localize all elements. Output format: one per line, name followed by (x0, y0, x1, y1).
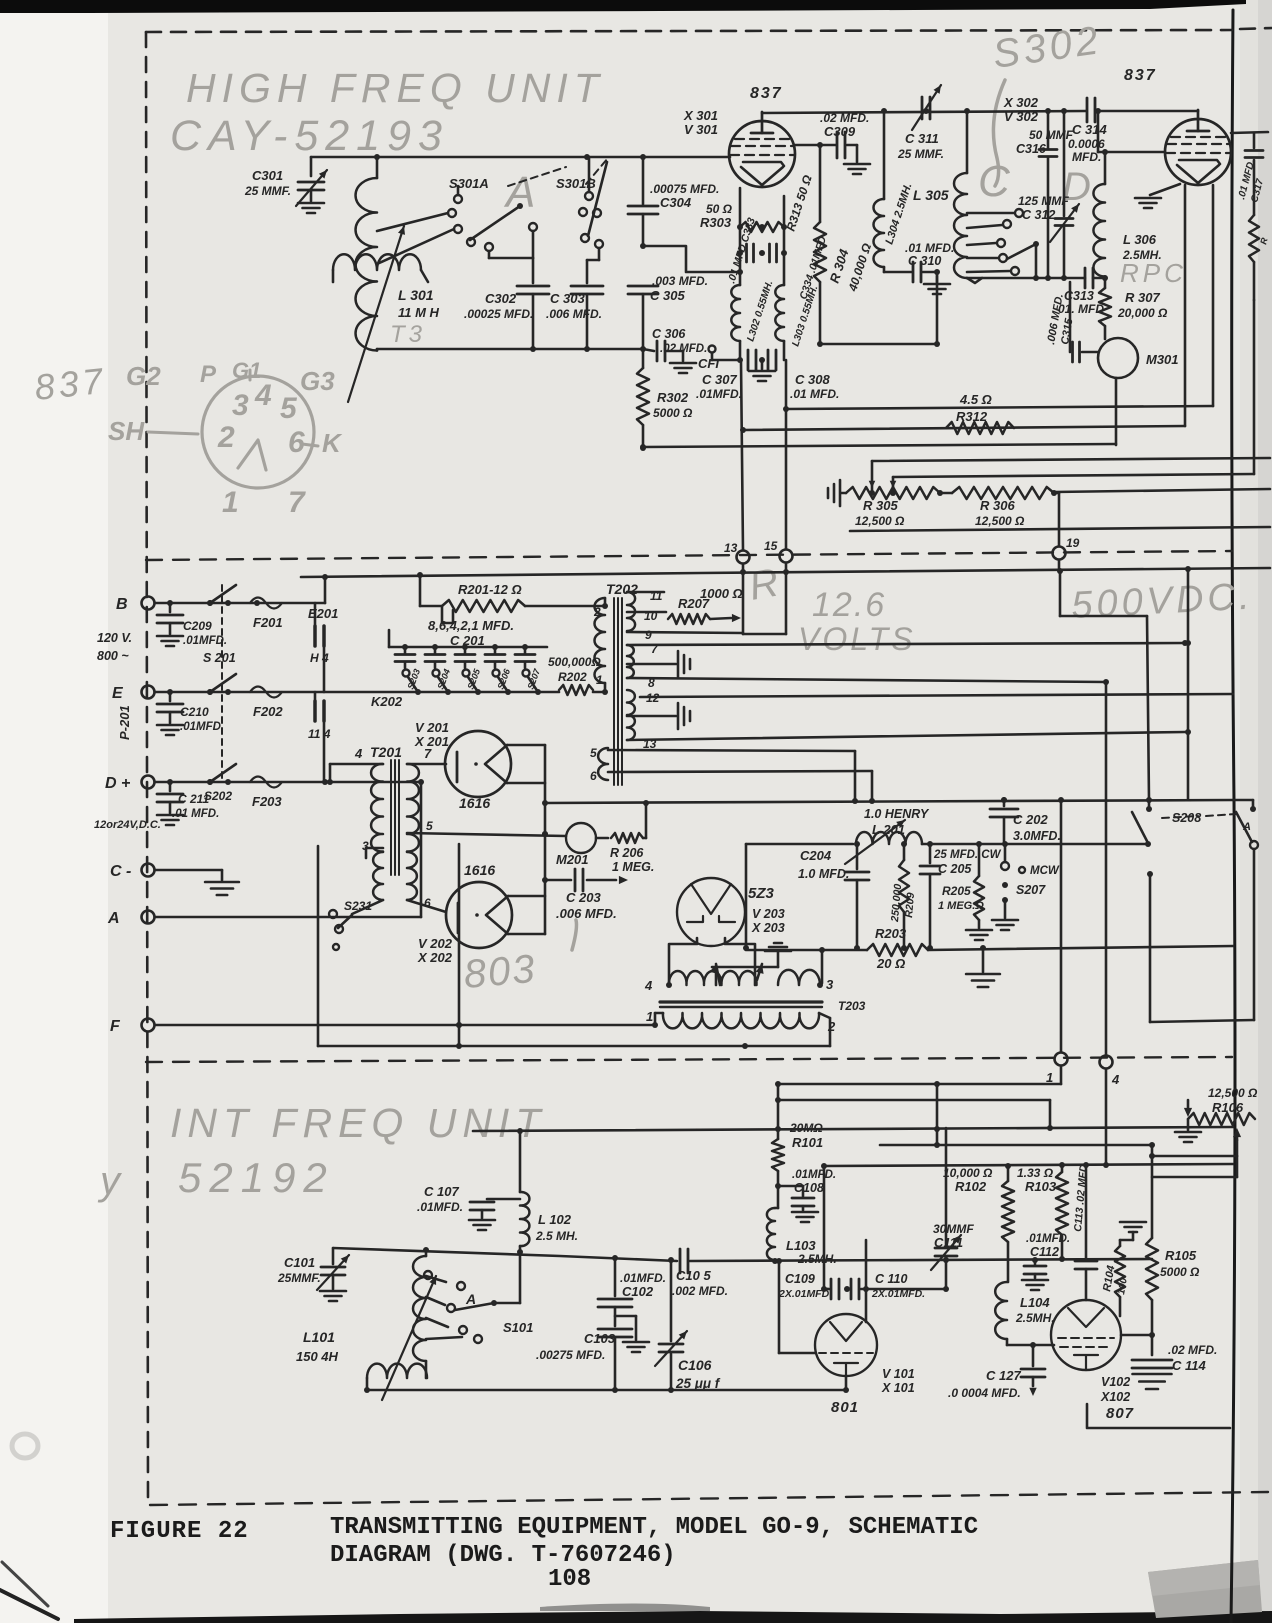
bottom-left scan mark (0, 1562, 58, 1619)
svg-text:P: P (200, 361, 217, 388)
svg-text:.01MFD.: .01MFD. (696, 387, 742, 401)
svg-text:P-201: P-201 (117, 705, 132, 740)
svg-text:K202: K202 (371, 694, 403, 709)
frame left dashed (146, 32, 148, 1503)
svg-text:X 101: X 101 (881, 1381, 915, 1395)
svg-text:6: 6 (590, 769, 597, 783)
svg-text:1616: 1616 (459, 795, 490, 811)
svg-text:D +: D + (105, 775, 130, 792)
svg-text:B: B (116, 596, 128, 613)
svg-text:L 102: L 102 (538, 1212, 572, 1227)
svg-text:R303: R303 (700, 215, 732, 230)
wire if bus y1084 (775, 1081, 1061, 1087)
svg-text:S101: S101 (503, 1320, 533, 1335)
svg-text:G2: G2 (126, 361, 161, 391)
resistor R201 (420, 575, 603, 623)
inductor L306 (1093, 149, 1161, 288)
svg-text:50 MMF: 50 MMF (1029, 128, 1074, 142)
svg-text:TRANSMITTING EQUIPMENT, MODEL: TRANSMITTING EQUIPMENT, MODEL GO-9, SCHE… (330, 1514, 978, 1541)
svg-text:5Z3: 5Z3 (748, 885, 775, 902)
svg-text:01. MFD: 01. MFD (1058, 302, 1104, 316)
svg-text:1 MEG.: 1 MEG. (612, 860, 654, 874)
svg-text:.01 MFD.: .01 MFD. (905, 241, 954, 255)
wire S101 taps (426, 1276, 462, 1339)
svg-text:C103: C103 (584, 1331, 616, 1346)
svg-text:V102: V102 (1101, 1375, 1130, 1389)
wire if top bus (473, 1125, 1233, 1134)
wire tap7 bus (627, 640, 1188, 646)
pencil tube base diagram (108, 358, 343, 519)
svg-text:C112: C112 (1030, 1245, 1059, 1259)
wire mid lower bus (318, 846, 830, 1049)
svg-text:108: 108 (548, 1566, 591, 1593)
svg-text:12,500 Ω: 12,500 Ω (1208, 1086, 1258, 1100)
svg-text:C111: C111 (934, 1235, 963, 1250)
svg-text:L103: L103 (786, 1238, 816, 1253)
wire hf bus446 (640, 444, 1116, 450)
capacitor C127 (948, 1342, 1045, 1400)
terminal 15 (743, 360, 793, 634)
terminal A (107, 910, 155, 927)
svg-text:20MΩ: 20MΩ (789, 1121, 823, 1135)
resistor R302 (637, 349, 693, 451)
fuse F203 (250, 777, 282, 810)
svg-text:4.5 Ω: 4.5 Ω (959, 392, 992, 407)
fuse F201 (250, 598, 283, 631)
svg-text:5: 5 (280, 392, 298, 425)
ground C102-C103 (615, 1316, 649, 1352)
wire M301 down (1115, 378, 1118, 445)
inductor L301 (356, 157, 440, 351)
svg-text:4: 4 (254, 379, 272, 412)
svg-text:C 114: C 114 (1172, 1358, 1206, 1373)
capacitor C311 variable (897, 85, 944, 161)
capacitor C102 (598, 1258, 666, 1326)
terminal CFI (698, 346, 740, 372)
capacitor C113 (1072, 1161, 1097, 1300)
wires L305 taps (967, 213, 1014, 272)
svg-text:1 MEG.Ω: 1 MEG.Ω (938, 900, 984, 912)
svg-text:.02 MFD.: .02 MFD. (660, 343, 707, 355)
transformer T202 primary (593, 598, 608, 695)
switch S303 blade (1007, 241, 1039, 281)
variometer arrow L301 (348, 226, 405, 402)
frame bottom dashed (150, 1492, 1268, 1505)
capacitor C303 (546, 286, 603, 349)
ground V302 (1135, 184, 1180, 208)
svg-text:C 201: C 201 (450, 633, 485, 648)
transformer T201 right low (407, 852, 446, 912)
wire E line (155, 689, 603, 695)
svg-text:C 311: C 311 (905, 131, 939, 146)
svg-text:DIAGRAM (DWG. T-7607246): DIAGRAM (DWG. T-7607246) (330, 1542, 676, 1569)
wire if bus y1100 (775, 1097, 1050, 1128)
svg-text:C 202: C 202 (1013, 812, 1048, 827)
resistor R209 (889, 844, 917, 951)
svg-text:X 201: X 201 (414, 734, 449, 749)
svg-text:8,6,4,2,1 MFD.: 8,6,4,2,1 MFD. (428, 618, 514, 633)
svg-text:MFD.: MFD. (1072, 150, 1101, 164)
svg-text:4: 4 (1111, 1072, 1120, 1087)
svg-text:.01 MFD.: .01 MFD. (790, 387, 839, 401)
svg-text:R102: R102 (955, 1179, 987, 1194)
wire C line (155, 870, 239, 895)
top scan bar (0, 0, 1246, 13)
wire top bus hf (311, 154, 730, 160)
relay E201 (308, 603, 338, 692)
resistor R306 (937, 487, 1270, 528)
wire v301 cathode legs (740, 188, 784, 227)
terminal C (110, 863, 155, 880)
svg-text:A: A (107, 910, 120, 927)
svg-text:50 Ω: 50 Ω (706, 202, 733, 216)
svg-text:V 301: V 301 (684, 122, 718, 137)
svg-text:VOLTS: VOLTS (798, 621, 916, 657)
svg-text:837: 837 (1124, 67, 1157, 84)
resistor R103 (1017, 1165, 1068, 1262)
svg-text:5: 5 (426, 819, 433, 833)
wire v302 leg short (783, 185, 1213, 412)
transformer T202 sec3 (627, 690, 660, 751)
svg-text:C 110: C 110 (875, 1272, 907, 1286)
resistor R305 (846, 487, 940, 528)
pencil C (978, 157, 1014, 206)
wire v301 top cap bus (762, 108, 1198, 114)
capacitor C301 (244, 157, 327, 213)
capacitor C114 (1132, 1343, 1217, 1389)
ground T202 sec3 tap (627, 703, 690, 729)
capacitor C310 (884, 241, 954, 344)
svg-text:C 203: C 203 (566, 890, 601, 905)
svg-text:S207: S207 (1016, 883, 1046, 897)
pencil CAY-52193 (170, 112, 449, 160)
svg-text:FIGURE 22: FIGURE 22 (110, 1518, 249, 1545)
fuse F202 (250, 687, 283, 720)
capacitor C305 (628, 274, 708, 349)
svg-text:.01MFD.: .01MFD. (792, 1169, 836, 1181)
svg-text:V 203: V 203 (752, 907, 785, 921)
switch S201b (207, 674, 236, 695)
pencil 12.6 VOLTS (798, 586, 916, 657)
svg-text:12,500 Ω: 12,500 Ω (855, 514, 905, 528)
svg-text:A: A (465, 1291, 476, 1307)
resistor R105 (1146, 1145, 1200, 1355)
capacitor C108 (778, 1169, 836, 1222)
svg-text:C -: C - (110, 863, 131, 880)
svg-text:L 201: L 201 (872, 822, 905, 837)
svg-text:C 205: C 205 (938, 862, 972, 876)
separator dashed power/if (146, 1057, 1232, 1062)
svg-text:.02 MFD.: .02 MFD. (820, 111, 869, 125)
svg-text:2.5MH.: 2.5MH. (1122, 248, 1162, 262)
switch S208 (1132, 800, 1236, 847)
resistor R202 (548, 655, 601, 695)
wire tap5 (608, 750, 858, 804)
frame top dashed (146, 28, 1272, 32)
bottom scan bar (74, 1604, 1272, 1623)
wire D line (155, 779, 421, 785)
tube V301 837 (683, 85, 795, 187)
capacitor C201 bank (389, 618, 547, 695)
wire 5z3 filament tap (710, 964, 764, 985)
inductor L305 (913, 111, 982, 283)
svg-text:2: 2 (593, 605, 601, 619)
svg-text:INT FREQ UNIT: INT FREQ UNIT (170, 1100, 546, 1146)
ground R305 (828, 480, 846, 506)
svg-text:K: K (322, 428, 343, 458)
resistor R106 (1175, 1086, 1258, 1142)
svg-text:R 206: R 206 (610, 846, 644, 860)
svg-text:25MMF.: 25MMF. (277, 1271, 321, 1285)
capacitor C111 (931, 1128, 974, 1289)
wire B to bus (324, 577, 327, 603)
wire L301 tap1 (377, 213, 448, 231)
inductor L103 (767, 1208, 837, 1266)
tube V203 5Z3 (677, 878, 785, 946)
transformer T202 sec1 (627, 589, 743, 642)
svg-text:V 101: V 101 (882, 1367, 915, 1381)
box 807 output (1087, 1404, 1230, 1428)
svg-text:C 305: C 305 (650, 288, 685, 303)
wire vert 1188 (1185, 566, 1191, 800)
resistor R304 (814, 145, 874, 344)
svg-text:.00075 MFD.: .00075 MFD. (650, 182, 719, 196)
svg-text:9: 9 (645, 628, 652, 642)
capacitor C107 (417, 1131, 520, 1230)
svg-text:C 314: C 314 (1072, 122, 1107, 137)
inductor L201 (743, 807, 930, 951)
capacitor C308 (749, 350, 839, 401)
pencil 837 left (33, 360, 109, 408)
caption title line1 (330, 1514, 978, 1541)
svg-text:5000 Ω: 5000 Ω (653, 406, 693, 420)
svg-text:X102: X102 (1100, 1390, 1130, 1404)
wire B line (155, 600, 325, 606)
inductor L101 (296, 1250, 426, 1378)
capacitor C316 (1016, 111, 1074, 278)
meter M301 (1098, 338, 1179, 378)
pencil 803 (462, 947, 538, 997)
svg-text:C209: C209 (183, 619, 212, 633)
svg-text:7: 7 (424, 746, 432, 761)
capacitor C202 (990, 797, 1061, 844)
ground 5Z3 filament ct (712, 943, 791, 985)
svg-text:1: 1 (596, 673, 603, 687)
transformer T203 top winding (644, 970, 834, 993)
tube V202 1616 (417, 862, 512, 965)
transformer T203 bottom winding (646, 1009, 836, 1034)
svg-text:E: E (112, 685, 124, 702)
capacitor C309 (820, 111, 870, 174)
svg-text:.01MFD.: .01MFD. (1026, 1233, 1070, 1245)
svg-text:HIGH FREQ UNIT: HIGH FREQ UNIT (186, 65, 605, 111)
svg-text:X 301: X 301 (683, 108, 718, 123)
switch S207 mcw (992, 844, 1060, 930)
svg-text:C204: C204 (800, 848, 832, 863)
svg-text:52192: 52192 (178, 1154, 335, 1201)
svg-text:R209: R209 (903, 892, 917, 918)
svg-text:V 302: V 302 (1004, 109, 1039, 124)
svg-text:19: 19 (1066, 536, 1080, 550)
svg-text:L 305: L 305 (913, 187, 949, 203)
dashed link A S301A (508, 167, 566, 186)
svg-text:C301: C301 (252, 168, 283, 183)
capacitor C211 (157, 782, 219, 825)
capacitor C304 (628, 157, 719, 249)
svg-text:M201: M201 (556, 852, 589, 867)
svg-text:T3: T3 (390, 321, 426, 348)
pencil A hf (503, 168, 539, 217)
wire mid bus697 (640, 694, 1233, 697)
svg-text:2.5MH.: 2.5MH. (797, 1252, 837, 1266)
pencil R scribble (746, 560, 786, 609)
capacitor C334 (737, 227, 829, 301)
switch S301B (556, 157, 607, 248)
wire T203 pin1 (655, 1013, 663, 1025)
svg-text:C210: C210 (180, 705, 209, 719)
capacitor C205 (920, 844, 1002, 951)
capacitor C105 (672, 1249, 728, 1298)
svg-text:E201: E201 (308, 606, 338, 621)
inductor L101 bottom winding (364, 1364, 427, 1393)
right border line (1231, 10, 1235, 1623)
tube V302 837 (1003, 67, 1231, 185)
svg-text:.002 MFD.: .002 MFD. (672, 1284, 728, 1298)
svg-text:150 4H: 150 4H (296, 1349, 339, 1364)
variometer arrow L101 (382, 1276, 436, 1400)
terminal F (110, 1018, 155, 1035)
wire S101 common (494, 1252, 520, 1303)
capacitor C109 (778, 1272, 850, 1300)
resistor R104 (1101, 1240, 1130, 1316)
svg-text:20,000 Ω: 20,000 Ω (1117, 306, 1168, 320)
resistor R206 (596, 803, 654, 874)
wire L301 tap2 (377, 229, 454, 264)
svg-text:C 107: C 107 (424, 1184, 459, 1199)
transformer T203 core (660, 999, 866, 1013)
pencil S302 (990, 18, 1104, 77)
svg-text:1616: 1616 (464, 862, 495, 878)
svg-text:G3: G3 (300, 366, 335, 396)
transformer T201 left (327, 764, 383, 858)
wire tap6 (608, 771, 875, 804)
svg-text:C 307: C 307 (702, 372, 737, 387)
svg-text:5000 Ω: 5000 Ω (1160, 1265, 1200, 1279)
wire R306 tap (890, 300, 1254, 496)
svg-text:.02 MFD.: .02 MFD. (1168, 1343, 1217, 1357)
svg-text:1: 1 (222, 486, 239, 519)
resistor R307 (1099, 288, 1168, 339)
resistor R102 (943, 1166, 1014, 1282)
wire A line (155, 779, 424, 917)
svg-text:C 308: C 308 (795, 372, 830, 387)
capacitor C314 (1068, 98, 1165, 164)
svg-text:C316: C316 (1016, 142, 1047, 156)
svg-text:C304: C304 (660, 195, 692, 210)
svg-text:1.0 HENRY: 1.0 HENRY (864, 807, 930, 821)
wire plate bus out (545, 797, 1233, 806)
wire vert 824 (821, 1163, 828, 1292)
svg-text:5: 5 (590, 746, 597, 760)
transformer T201 left low (352, 852, 383, 914)
svg-text:25 MFD. CW: 25 MFD. CW (933, 849, 1002, 861)
wire 5z3 plates (669, 938, 755, 985)
switch S202 (204, 764, 236, 803)
separator dashed hf/power (146, 551, 1232, 560)
svg-text:.00275 MFD.: .00275 MFD. (536, 1348, 605, 1362)
capacitor C317 (1236, 133, 1266, 215)
svg-text:C109: C109 (785, 1272, 815, 1286)
svg-text:CAY-52193: CAY-52193 (170, 112, 449, 160)
svg-text:T203: T203 (838, 999, 866, 1013)
caption FIGURE 22 (110, 1518, 249, 1545)
svg-text:10,000 Ω: 10,000 Ω (943, 1166, 993, 1180)
svg-text:F203: F203 (252, 794, 282, 809)
transformer T201 core (354, 744, 432, 875)
svg-text:.006 MFD.: .006 MFD. (556, 906, 617, 921)
svg-text:2.5MH.: 2.5MH. (1015, 1311, 1055, 1325)
pencil CAY if (97, 1154, 335, 1203)
svg-text:R 306: R 306 (980, 498, 1015, 513)
tape patch bottom right (1148, 1560, 1262, 1618)
transformer T201 right (407, 764, 566, 852)
svg-text:2: 2 (827, 1019, 836, 1034)
inductor L104 (995, 1282, 1054, 1345)
tube V201 1616 (414, 720, 511, 811)
meter M201 (556, 823, 596, 867)
svg-text:H 4: H 4 (310, 651, 329, 665)
wire R106 row (1152, 1128, 1241, 1177)
svg-text:F201: F201 (253, 615, 283, 630)
svg-text:L 306: L 306 (1123, 232, 1157, 247)
svg-text:C309: C309 (824, 124, 856, 139)
svg-text:.0 0004 MFD.: .0 0004 MFD. (948, 1386, 1021, 1400)
svg-text:S 201: S 201 (203, 651, 236, 665)
svg-text:12or24V,D.C.: 12or24V,D.C. (94, 819, 161, 831)
svg-text:25 MMF.: 25 MMF. (244, 184, 291, 198)
svg-text:C108: C108 (794, 1181, 824, 1195)
tube V101 801 (815, 1314, 915, 1416)
pencil RPC (1120, 258, 1187, 288)
svg-text:.01 MFD.: .01 MFD. (172, 808, 219, 820)
resistor R317 right edge (1249, 215, 1270, 300)
ground R203 row (966, 945, 1000, 987)
wire row529 (850, 527, 1270, 531)
transformer T202 sec2 (627, 642, 659, 690)
capacitor C110 (851, 1272, 949, 1300)
svg-text:F: F (110, 1018, 121, 1035)
pencil S302 leader (993, 80, 1005, 186)
svg-text:6: 6 (288, 426, 305, 459)
wire R203 row (746, 946, 1233, 950)
switch S301A (448, 176, 523, 251)
svg-text:12,500 Ω: 12,500 Ω (975, 514, 1025, 528)
svg-text:T201: T201 (370, 744, 402, 760)
svg-text:1000 Ω: 1000 Ω (700, 586, 743, 601)
svg-text:C 306: C 306 (652, 327, 686, 341)
wire vert 866 (865, 1240, 868, 1322)
wire if bottom bus (367, 1387, 849, 1393)
svg-text:F202: F202 (253, 704, 283, 719)
svg-text:800 ~: 800 ~ (97, 649, 129, 663)
svg-text:.00025 MFD.: .00025 MFD. (464, 307, 533, 321)
capacitor C333 (725, 216, 758, 285)
wire jog 500vdc (1057, 568, 1149, 800)
svg-text:A: A (503, 168, 539, 217)
wire grid 801 (775, 1258, 815, 1353)
svg-text:X 202: X 202 (417, 950, 453, 965)
resistor R203 (867, 926, 928, 971)
